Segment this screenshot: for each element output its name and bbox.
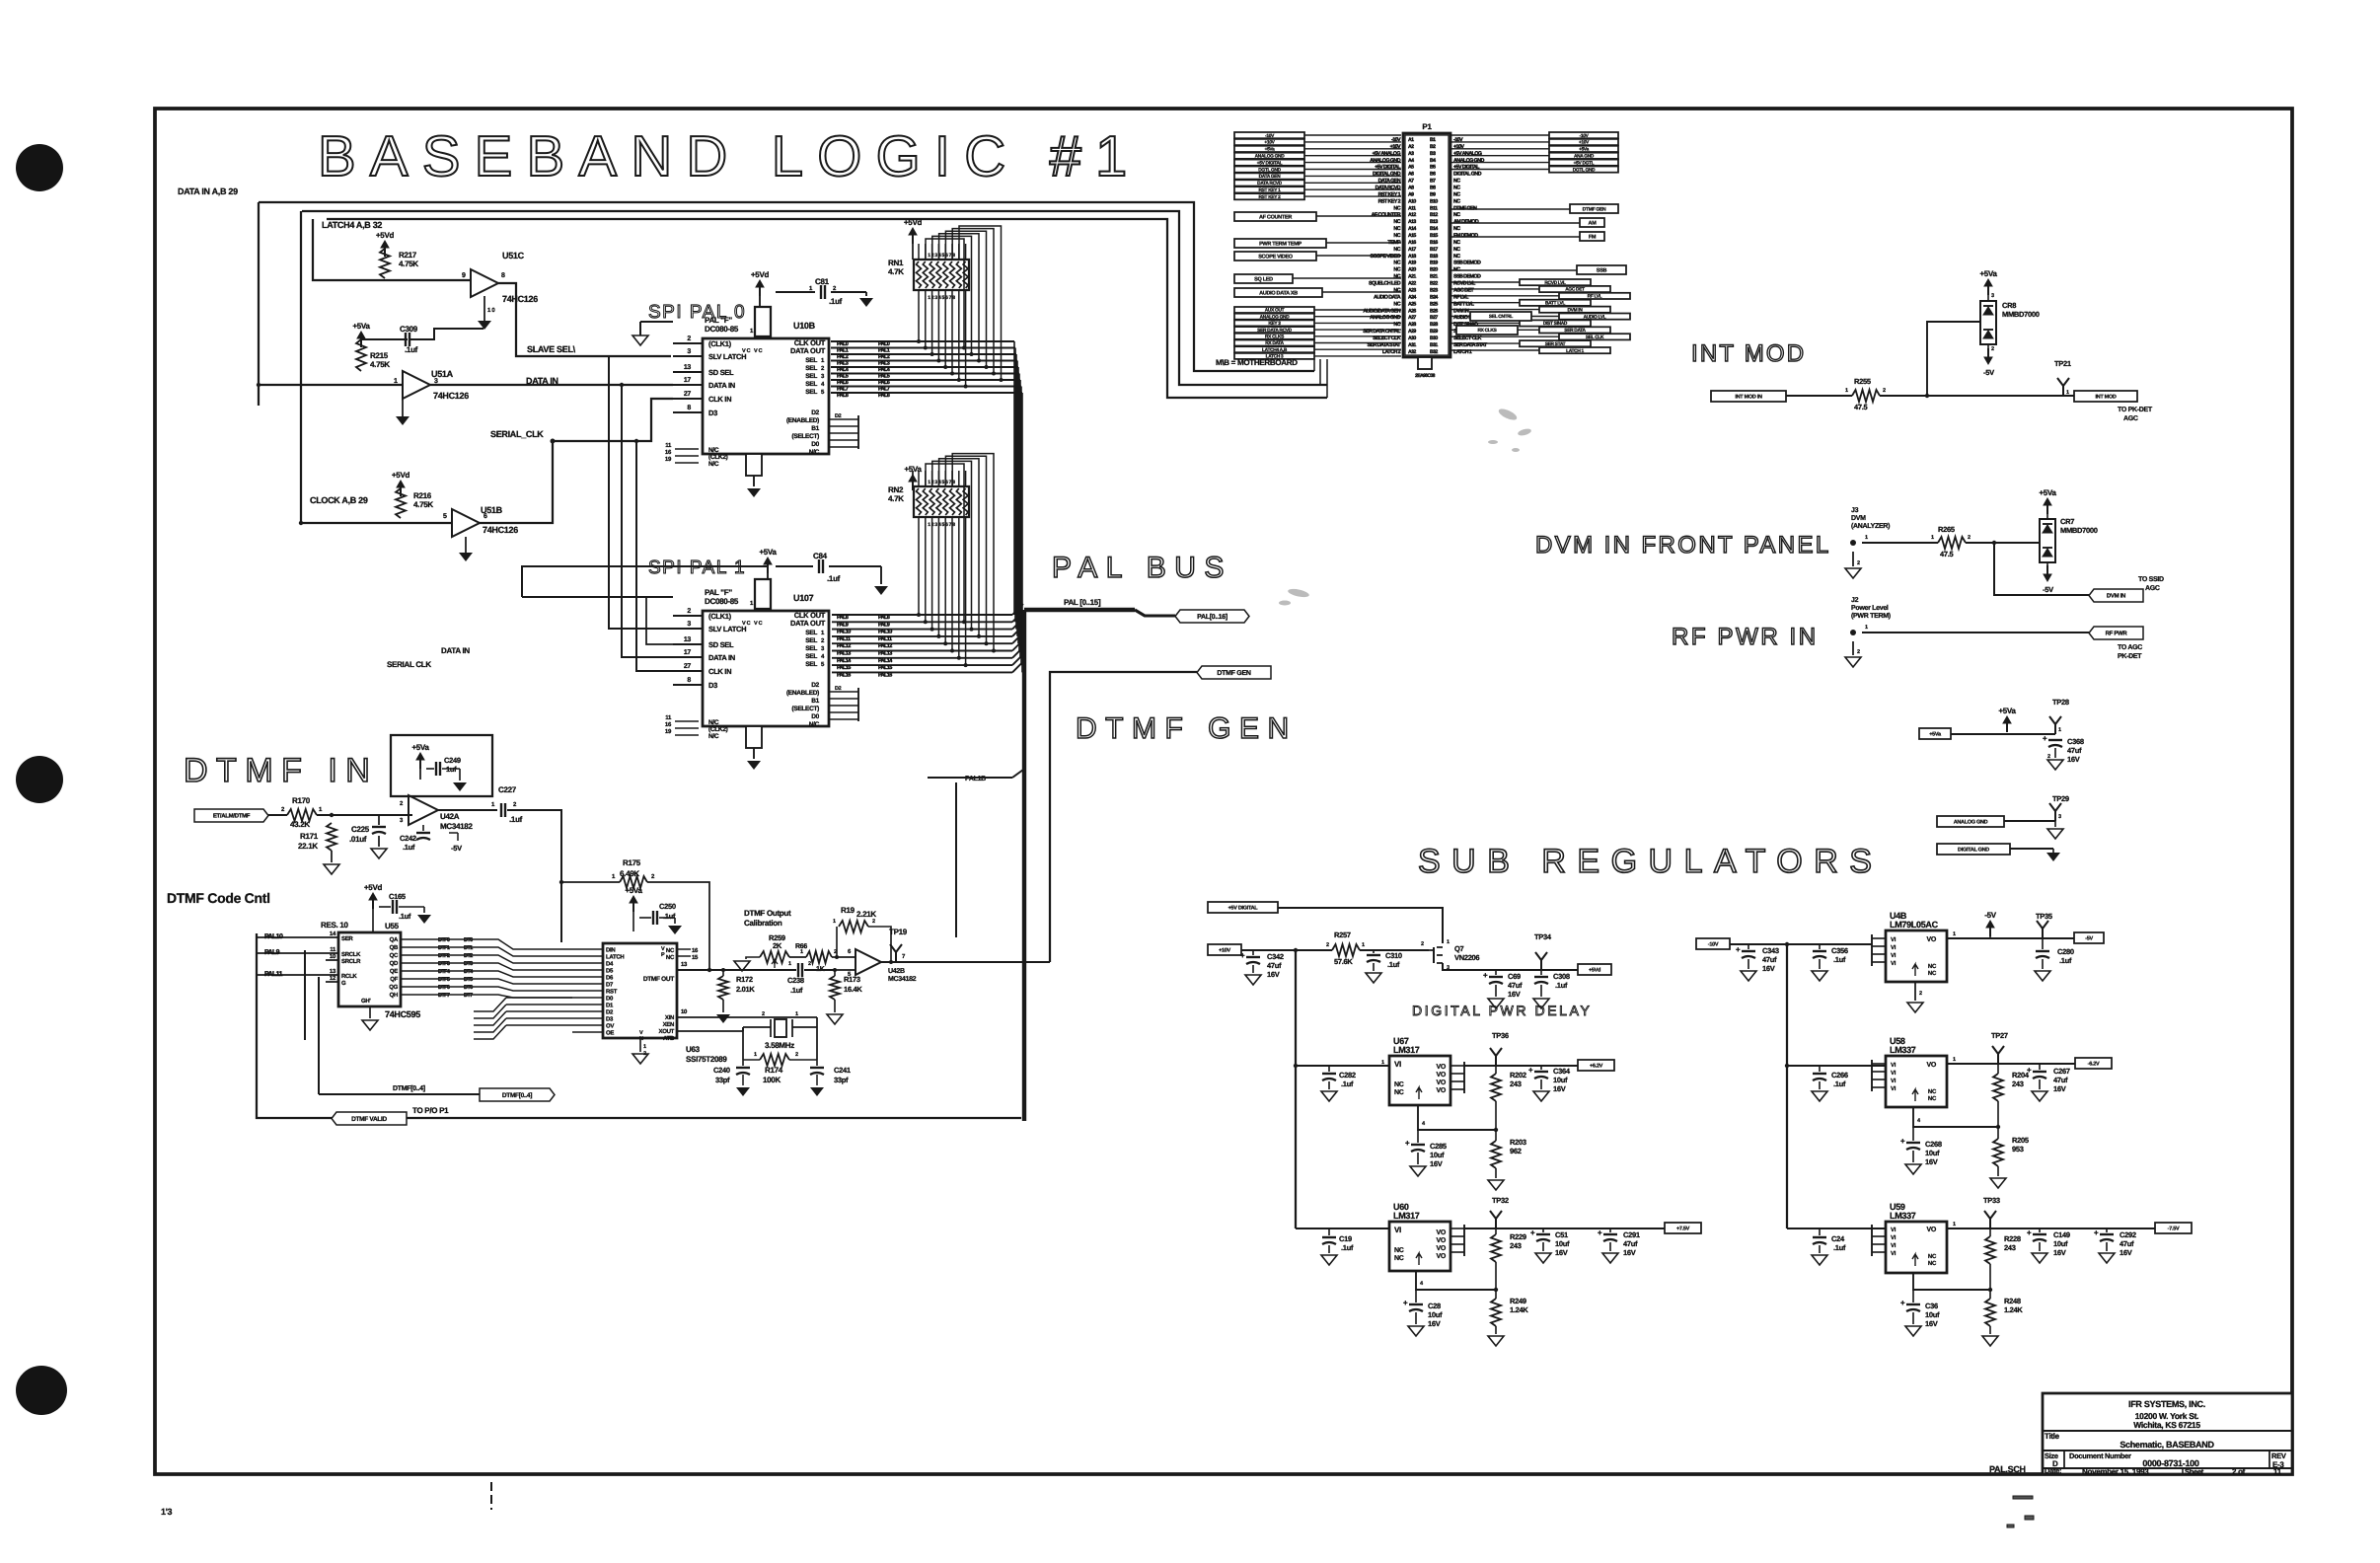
svg-text:A19: A19 xyxy=(1408,260,1416,266)
svg-text:(CLK1): (CLK1) xyxy=(708,339,732,348)
svg-text:10uf: 10uf xyxy=(1925,1149,1940,1157)
svg-text:D2: D2 xyxy=(835,686,842,692)
svg-text:DATA GEN: DATA GEN xyxy=(1259,174,1282,180)
svg-text:(ANALYZER): (ANALYZER) xyxy=(1851,522,1890,530)
net label -7.5V box xyxy=(2155,1223,2192,1233)
svg-text:+: + xyxy=(2027,1228,2032,1237)
wire DTMF[0..4] run xyxy=(319,1093,480,1095)
svg-text:1: 1 xyxy=(1381,1060,1384,1066)
svg-text:ANA GND: ANA GND xyxy=(1574,154,1595,160)
P1 right FM wire xyxy=(1450,236,1580,238)
svg-text:NC: NC xyxy=(1928,970,1937,977)
svg-text:QA: QA xyxy=(390,936,399,943)
svg-text:TO AGC: TO AGC xyxy=(2118,644,2142,651)
P1 right AM wire xyxy=(1450,222,1580,224)
svg-text:DVM: DVM xyxy=(1851,515,1866,522)
svg-text:1: 1 xyxy=(1865,535,1868,541)
svg-text:11: 11 xyxy=(330,946,336,953)
ground U51A xyxy=(402,399,404,416)
svg-text:19: 19 xyxy=(665,456,672,463)
svg-text:1: 1 xyxy=(788,961,791,967)
U107 pin 2 (CLK1) xyxy=(673,615,703,617)
svg-text:PAL7: PAL7 xyxy=(878,387,890,393)
P1 right top label boxes xyxy=(1450,134,1549,136)
svg-text:B15: B15 xyxy=(1430,233,1438,239)
ground C240 xyxy=(736,1087,750,1096)
wire PAL1B xyxy=(955,782,957,937)
U10B enable stubs xyxy=(829,418,858,420)
svg-text:D7: D7 xyxy=(606,982,614,989)
svg-text:74HC126: 74HC126 xyxy=(433,391,469,401)
junction serial clk xyxy=(551,439,556,444)
svg-text:B29: B29 xyxy=(1430,329,1438,335)
svg-text:DT1: DT1 xyxy=(464,945,473,951)
svg-text:2: 2 xyxy=(1968,535,1971,541)
svg-text:VI: VI xyxy=(1891,1078,1897,1084)
svg-text:17: 17 xyxy=(684,649,692,656)
svg-text:PAL1: PAL1 xyxy=(878,348,890,354)
wire rail to U67 xyxy=(1296,1065,1389,1067)
svg-text:NC: NC xyxy=(1928,1260,1937,1267)
PAL bus bundle upper xyxy=(831,340,1014,342)
svg-text:LM79L05AC: LM79L05AC xyxy=(1890,920,1939,930)
svg-text:13: 13 xyxy=(330,968,336,975)
svg-text:QD: QD xyxy=(390,960,399,967)
wire left vertical 2 xyxy=(300,211,302,523)
svg-text:3: 3 xyxy=(2058,814,2061,820)
net label ET/ALM/DTMF xyxy=(194,809,268,822)
svg-text:RN1: RN1 xyxy=(888,259,904,267)
svg-text:SER STAT: SER STAT xyxy=(1545,341,1566,347)
svg-text:3: 3 xyxy=(687,621,691,628)
svg-text:+10V: +10V xyxy=(1219,947,1230,953)
svg-text:B9: B9 xyxy=(1430,191,1436,197)
svg-text:B1: B1 xyxy=(811,698,819,705)
capacitor C250 .1uf xyxy=(639,917,651,919)
svg-text:1: 1 xyxy=(2058,727,2061,733)
svg-text:MC34182: MC34182 xyxy=(440,822,473,831)
capacitor C36 10uf xyxy=(1912,1290,1914,1302)
U59 out wire xyxy=(1947,1228,2155,1229)
svg-text:LM337: LM337 xyxy=(1890,1045,1916,1055)
svg-text:R249: R249 xyxy=(1510,1297,1526,1305)
wire R217 to U51C xyxy=(385,279,471,281)
svg-text:.1uf: .1uf xyxy=(1341,1243,1354,1252)
svg-text:VI: VI xyxy=(1891,960,1897,967)
svg-text:SSB DEMOD: SSB DEMOD xyxy=(1453,260,1481,266)
svg-text:CR8: CR8 xyxy=(2002,301,2016,310)
svg-text:+5V DGTL: +5V DGTL xyxy=(1574,160,1595,166)
capacitor C356 .1uf xyxy=(1819,944,1821,949)
svg-text:+5Vd: +5Vd xyxy=(904,218,923,227)
svg-text:INT MOD IN: INT MOD IN xyxy=(1735,394,1762,400)
svg-text:SEL: SEL xyxy=(805,365,817,372)
svg-text:SLV LATCH: SLV LATCH xyxy=(708,625,746,633)
wire -10V rail xyxy=(1730,943,1845,945)
svg-text:Q7: Q7 xyxy=(1454,944,1464,953)
svg-text:PAL6: PAL6 xyxy=(878,380,890,386)
svg-text:C249: C249 xyxy=(444,756,461,765)
ground C51 xyxy=(1535,1253,1551,1263)
PAL bus out line xyxy=(1024,608,1135,612)
RN2 bottom pin wires xyxy=(918,517,920,615)
svg-text:.1uf: .1uf xyxy=(1387,960,1400,969)
svg-text:+: + xyxy=(1736,945,1741,954)
U107 N/C pins xyxy=(675,720,699,722)
svg-text:16V: 16V xyxy=(1430,1159,1443,1168)
svg-text:Calibration: Calibration xyxy=(744,919,782,928)
svg-text:R255: R255 xyxy=(1854,377,1871,386)
svg-text:Sheet: Sheet xyxy=(2185,1467,2204,1476)
svg-text:PAL4: PAL4 xyxy=(837,367,850,373)
svg-text:16V: 16V xyxy=(1267,970,1280,979)
svg-text:RST KEY 2: RST KEY 2 xyxy=(1258,194,1281,200)
svg-text:V C: V C xyxy=(742,621,751,627)
svg-text:QC: QC xyxy=(390,952,399,959)
svg-text:DTF3: DTF3 xyxy=(438,961,450,967)
svg-text:17: 17 xyxy=(684,377,692,384)
svg-text:2: 2 xyxy=(1421,941,1424,947)
svg-text:DIN: DIN xyxy=(606,947,615,954)
svg-text:SEL CLK: SEL CLK xyxy=(1586,335,1604,340)
svg-text:RST KEY 1: RST KEY 1 xyxy=(1258,187,1281,193)
svg-text:10uf: 10uf xyxy=(2053,1239,2068,1248)
svg-text:D2: D2 xyxy=(606,1009,614,1016)
svg-text:2: 2 xyxy=(762,1011,765,1017)
svg-text:B27: B27 xyxy=(1430,315,1438,321)
net label DTMF GEN hex xyxy=(1197,666,1271,679)
resistor R19 2.21K feedback xyxy=(836,927,838,957)
ground R248 xyxy=(1989,1326,1991,1334)
svg-text:PAL8: PAL8 xyxy=(878,393,890,399)
U4B gnd pin xyxy=(1914,982,1916,1001)
svg-text:22.1K: 22.1K xyxy=(298,842,318,851)
svg-text:B5: B5 xyxy=(1430,165,1436,171)
svg-text:SSB: SSB xyxy=(1597,267,1607,273)
ground tp29 xyxy=(2054,821,2056,827)
svg-text:2: 2 xyxy=(1883,388,1886,394)
svg-text:VI: VI xyxy=(1891,1062,1897,1069)
svg-text:A15: A15 xyxy=(1408,233,1416,239)
capacitor C28 10uf xyxy=(1415,1290,1417,1302)
svg-text:+: + xyxy=(1240,951,1245,960)
svg-text:57.6K: 57.6K xyxy=(1334,957,1353,966)
svg-text:B4: B4 xyxy=(1430,158,1436,164)
svg-text:PAL8: PAL8 xyxy=(837,393,849,399)
svg-text:-5V: -5V xyxy=(1984,911,1997,920)
svg-text:.1uf: .1uf xyxy=(1833,955,1846,964)
svg-text:PAL5: PAL5 xyxy=(878,374,890,380)
resistor R265 47.5 xyxy=(1938,537,1966,549)
svg-text:FM DEMOD: FM DEMOD xyxy=(1453,233,1478,239)
svg-text:.1uf: .1uf xyxy=(1341,1079,1354,1088)
svg-text:(CLK1): (CLK1) xyxy=(708,612,732,621)
svg-text:+5Va: +5Va xyxy=(625,886,642,895)
svg-text:A20: A20 xyxy=(1408,267,1416,273)
svg-text:+5Vd: +5Vd xyxy=(751,270,770,279)
wire tp29 xyxy=(2004,820,2055,822)
ground C356 xyxy=(1812,971,1827,981)
ground C24 xyxy=(1812,1255,1827,1265)
svg-text:R171: R171 xyxy=(300,832,319,841)
svg-text:B23: B23 xyxy=(1430,287,1438,293)
svg-text:SER DATA: SER DATA xyxy=(1564,328,1586,334)
svg-text:C310: C310 xyxy=(1385,951,1402,960)
svg-text:VI: VI xyxy=(1891,1070,1897,1077)
svg-text:PAL11: PAL11 xyxy=(878,636,892,642)
svg-text:6: 6 xyxy=(483,513,487,520)
wire R215 top to C309 xyxy=(361,338,408,340)
wire rail to U58 xyxy=(1787,1065,1886,1067)
IC U55 74HC595 box xyxy=(338,932,401,1006)
svg-text:VO: VO xyxy=(1436,1229,1446,1236)
svg-text:R216: R216 xyxy=(413,491,432,500)
resistor R216 4.75K xyxy=(396,488,406,518)
svg-text:QF: QF xyxy=(390,976,398,983)
svg-text:16V: 16V xyxy=(1555,1248,1568,1257)
U107 pin 17 DATA IN xyxy=(673,656,703,658)
svg-text:2.01K: 2.01K xyxy=(736,985,755,994)
svg-text:PAL14: PAL14 xyxy=(837,658,852,664)
capacitor C292 47uf xyxy=(2106,1228,2108,1232)
power -5V U42A xyxy=(449,832,458,834)
svg-text:PAL0: PAL0 xyxy=(837,341,849,347)
ground digital gnd xyxy=(2046,853,2060,861)
svg-text:SUB REGULATORS: SUB REGULATORS xyxy=(1418,843,1883,880)
svg-text:A29: A29 xyxy=(1408,329,1416,335)
svg-text:PAL12: PAL12 xyxy=(837,643,851,649)
svg-text:47uf: 47uf xyxy=(2067,746,2082,755)
svg-text:2.21K: 2.21K xyxy=(856,910,876,919)
svg-text:DATA IN A,B 29: DATA IN A,B 29 xyxy=(178,186,238,196)
svg-text:R257: R257 xyxy=(1334,930,1351,939)
svg-text:B10: B10 xyxy=(1430,198,1438,204)
svg-text:C356: C356 xyxy=(1831,946,1848,955)
svg-text:.01uf: .01uf xyxy=(349,835,367,844)
diode pair CR8 MMBD7000 xyxy=(1980,301,1996,344)
wire DTMF OUT pin13 xyxy=(677,969,709,971)
svg-text:C292: C292 xyxy=(2120,1230,2136,1239)
wires U63 lower data pins xyxy=(506,997,572,999)
svg-text:PAL4: PAL4 xyxy=(878,367,891,373)
capacitor C165 .1uf xyxy=(379,906,391,908)
svg-text:PAL9: PAL9 xyxy=(264,949,280,956)
svg-text:DTMF GEN: DTMF GEN xyxy=(1217,670,1250,677)
hole punch top xyxy=(16,144,63,191)
U107 pin 8 D3 xyxy=(673,684,703,686)
svg-text:RST KEY 2: RST KEY 2 xyxy=(1378,198,1401,204)
svg-text:DTF1: DTF1 xyxy=(438,945,450,951)
svg-text:SEL: SEL xyxy=(805,389,817,396)
svg-text:VI: VI xyxy=(1891,952,1897,959)
svg-text:.1uf: .1uf xyxy=(663,912,676,921)
power +5Vd R216 xyxy=(397,481,405,487)
transistor Q7 VN2206 xyxy=(1429,946,1447,964)
rail -10V vertical xyxy=(1786,944,1788,1228)
svg-text:MMBD7000: MMBD7000 xyxy=(2060,526,2098,535)
power +5Vd U55 xyxy=(369,893,377,900)
ground C225 xyxy=(378,836,380,847)
capacitor C285 10uf xyxy=(1417,1130,1419,1143)
svg-text:PAL16: PAL16 xyxy=(878,672,892,678)
svg-text:Schematic, BASEBAND: Schematic, BASEBAND xyxy=(2120,1440,2214,1450)
svg-text:PAL16: PAL16 xyxy=(837,672,851,678)
svg-text:16: 16 xyxy=(665,721,672,728)
svg-text:PAL15: PAL15 xyxy=(878,665,892,671)
svg-text:B30: B30 xyxy=(1430,335,1438,341)
svg-text:NC: NC xyxy=(1453,212,1460,218)
svg-text:RES. 10: RES. 10 xyxy=(321,921,349,930)
svg-text:OE: OE xyxy=(606,1030,614,1037)
wire r257 to q7 xyxy=(1360,949,1429,951)
buffer U51C 74HC126 xyxy=(471,269,498,297)
svg-text:QG: QG xyxy=(389,984,398,991)
U107 enable stubs xyxy=(829,691,858,693)
svg-text:16V: 16V xyxy=(1762,964,1775,973)
svg-text:10: 10 xyxy=(330,953,336,960)
svg-text:A18: A18 xyxy=(1408,254,1416,260)
svg-text:19: 19 xyxy=(665,728,672,735)
svg-text:DATA OUT: DATA OUT xyxy=(790,619,826,628)
U58 out wire xyxy=(1947,1063,2075,1065)
svg-text:1.24K: 1.24K xyxy=(1510,1305,1528,1314)
svg-text:CLOCK A,B 29: CLOCK A,B 29 xyxy=(310,495,368,505)
svg-text:PAL10: PAL10 xyxy=(837,630,851,635)
svg-text:A16: A16 xyxy=(1408,240,1416,246)
hook arrow left of U10B xyxy=(639,322,641,335)
svg-text:TP27: TP27 xyxy=(1991,1031,2008,1040)
hole punch bottom xyxy=(16,1366,67,1415)
svg-text:NC: NC xyxy=(1394,1089,1404,1096)
U10B pin 2 (CLK1) xyxy=(673,342,703,344)
P1 left label boxes group1 xyxy=(1234,132,1304,138)
U59 adj wire xyxy=(1913,1273,1990,1290)
svg-text:DTF4: DTF4 xyxy=(438,969,451,975)
svg-text:27: 27 xyxy=(684,663,692,670)
svg-text:4.75K: 4.75K xyxy=(399,260,418,268)
ground R172 xyxy=(722,1000,724,1012)
svg-text:VO: VO xyxy=(1926,936,1936,943)
svg-text:3: 3 xyxy=(1991,293,1994,299)
U10B pin 8 D3 xyxy=(673,411,703,413)
regulator U60 LM317 xyxy=(1389,1222,1450,1271)
svg-text:16: 16 xyxy=(665,449,672,456)
wire top bus line A xyxy=(259,202,1314,371)
svg-text:B25: B25 xyxy=(1430,301,1438,307)
ground C149 xyxy=(2032,1253,2047,1263)
svg-text:PAL9: PAL9 xyxy=(878,622,890,628)
svg-text:11: 11 xyxy=(2273,1467,2282,1476)
svg-text:November 15, 1993: November 15, 1993 xyxy=(2082,1467,2149,1476)
U63 right stubs xyxy=(677,948,691,950)
P1 right SSB wire xyxy=(1450,269,1577,271)
svg-text:NC: NC xyxy=(1394,1247,1404,1254)
svg-text:R173: R173 xyxy=(844,975,860,984)
svg-text:PAL13: PAL13 xyxy=(837,651,851,657)
U107 pin 13 SD SEL xyxy=(673,643,703,645)
PAL IC U107 box xyxy=(703,611,829,726)
svg-text:TP35: TP35 xyxy=(2036,912,2052,921)
wire dtmf gen xyxy=(1050,672,1197,962)
U107 pin 27 CLK IN xyxy=(673,670,703,672)
net label DIGITAL GND box xyxy=(1937,844,2010,855)
svg-text:+: + xyxy=(1405,1139,1410,1148)
svg-text:PAL11: PAL11 xyxy=(264,971,283,978)
wire sd sel loop U107 xyxy=(522,596,673,598)
svg-text:DC080-85: DC080-85 xyxy=(705,597,739,606)
ground R173 xyxy=(834,1000,836,1012)
svg-text:C240: C240 xyxy=(713,1066,730,1075)
svg-text:C368: C368 xyxy=(2067,737,2084,746)
svg-text:INT MOD: INT MOD xyxy=(1691,340,1806,367)
svg-text:16V: 16V xyxy=(2053,1248,2066,1257)
svg-text:+5Vd: +5Vd xyxy=(392,471,410,480)
svg-text:+: + xyxy=(1900,1137,1905,1146)
svg-text:A26: A26 xyxy=(1408,308,1416,314)
svg-text:P1: P1 xyxy=(1422,122,1432,131)
svg-text:PAL7: PAL7 xyxy=(837,387,849,393)
capacitor C149 10uf xyxy=(2039,1228,2041,1232)
capacitor C291 47uf xyxy=(1609,1228,1611,1232)
wire to CR8 xyxy=(1927,322,1980,396)
svg-text:NC: NC xyxy=(1393,267,1400,273)
svg-text:14: 14 xyxy=(330,930,336,937)
svg-text:2 of: 2 of xyxy=(2232,1467,2246,1476)
P1 left single AUDIO DATA XB xyxy=(1234,288,1322,297)
svg-text:PAL [0..15]: PAL [0..15] xyxy=(1064,598,1101,607)
svg-text:VI: VI xyxy=(1891,1234,1897,1241)
svg-text:A10: A10 xyxy=(1408,198,1416,204)
capacitor C267 47uf xyxy=(2039,1064,2041,1070)
svg-text:A32: A32 xyxy=(1408,349,1416,355)
svg-text:D0: D0 xyxy=(811,441,819,448)
resistor R172 2.01K xyxy=(721,968,725,972)
svg-text:D3: D3 xyxy=(708,681,717,690)
svg-text:1: 1 xyxy=(795,1011,798,1017)
svg-text:A8: A8 xyxy=(1408,186,1414,191)
svg-text:+5Vd: +5Vd xyxy=(364,883,383,892)
svg-text:C19: C19 xyxy=(1339,1234,1352,1243)
ground C28 xyxy=(1408,1326,1424,1336)
svg-text:DVM IN: DVM IN xyxy=(2107,593,2125,600)
svg-text:+5Va: +5Va xyxy=(1979,269,1997,278)
svg-text:1: 1 xyxy=(1845,388,1848,394)
svg-text:47uf: 47uf xyxy=(1623,1239,1638,1248)
wire rail to U59 xyxy=(1787,1228,1886,1229)
net label ANALOG GND box xyxy=(1937,816,2004,827)
svg-text:B20: B20 xyxy=(1430,267,1438,273)
svg-text:DATA IN: DATA IN xyxy=(708,381,735,390)
ground C282 xyxy=(1321,1091,1337,1101)
wire to R170 xyxy=(268,814,287,816)
resistor R249 1.24K xyxy=(1495,1290,1497,1299)
wire q7 out xyxy=(1443,963,1578,970)
svg-text:DTF7: DTF7 xyxy=(438,993,450,999)
svg-text:.1uf: .1uf xyxy=(1833,1243,1846,1252)
PAL IC U10B box xyxy=(703,338,829,454)
svg-text:243: 243 xyxy=(1510,1079,1522,1088)
svg-text:2: 2 xyxy=(687,335,691,342)
wire R170 junction xyxy=(317,814,412,816)
svg-text:+5Va: +5Va xyxy=(2039,488,2056,497)
svg-text:LM337: LM337 xyxy=(1890,1211,1916,1221)
svg-text:PAL8: PAL8 xyxy=(837,615,849,621)
svg-text:Date:: Date: xyxy=(2045,1466,2061,1475)
resistor R255 47.5 xyxy=(1852,390,1880,402)
svg-text:1: 1 xyxy=(1953,931,1956,937)
resistor R173 16.4K xyxy=(833,968,837,972)
svg-text:-5V: -5V xyxy=(1983,368,1994,377)
